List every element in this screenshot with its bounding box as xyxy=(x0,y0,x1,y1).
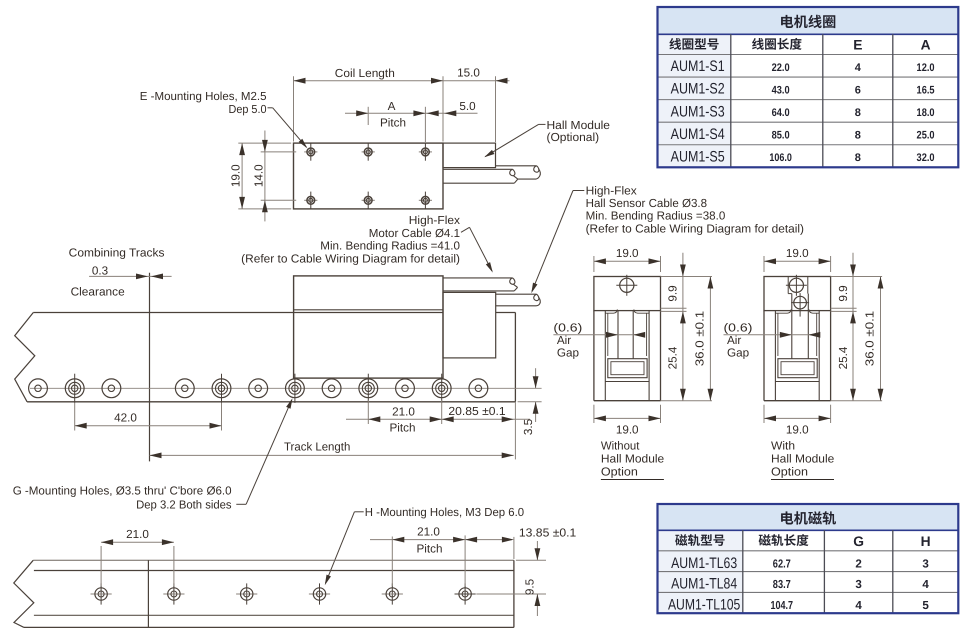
center blade xyxy=(618,311,633,359)
svg-text:H: H xyxy=(921,534,931,549)
label High-Flex Hall Sensor Cable xyxy=(529,184,804,294)
svg-text:5.0: 5.0 xyxy=(459,100,476,113)
svg-text:Pitch: Pitch xyxy=(390,421,416,434)
table data row AUM1-S5 xyxy=(658,145,935,168)
svg-text:25.4: 25.4 xyxy=(667,346,680,369)
dimension 19.0 top xyxy=(764,247,831,272)
H mounting holes (6x) xyxy=(91,583,476,604)
dimension 21.0 (left) xyxy=(101,528,174,586)
dimension 19.0 bottom xyxy=(594,405,661,437)
magnet track body (top view) xyxy=(14,560,514,627)
svg-text:83.7: 83.7 xyxy=(773,578,791,591)
motor cable (side view) xyxy=(443,278,518,291)
svg-text:21.0: 21.0 xyxy=(126,528,149,541)
hall module (side view) xyxy=(443,292,496,358)
svg-text:13.85 ±0.1: 13.85 ±0.1 xyxy=(519,526,576,539)
hall sensor cable (top view) xyxy=(496,166,541,179)
svg-text:8: 8 xyxy=(855,152,861,164)
svg-text:G: G xyxy=(853,534,864,549)
svg-text:3: 3 xyxy=(922,557,929,570)
dimensions 9.9 / 25.4 / 36.0 xyxy=(831,253,884,401)
dimension 13.85 +/-0.1 xyxy=(465,526,576,559)
svg-text:6: 6 xyxy=(855,85,861,97)
svg-text:36.0 ±0.1: 36.0 ±0.1 xyxy=(693,311,706,366)
svg-text:(Optional): (Optional) xyxy=(547,131,600,144)
svg-text:25.4: 25.4 xyxy=(837,346,850,369)
svg-text:AUM1-S2: AUM1-S2 xyxy=(671,81,725,98)
svg-text:32.0: 32.0 xyxy=(917,152,935,164)
table title row: 电机线圈 xyxy=(658,7,959,34)
svg-text:25.0: 25.0 xyxy=(917,130,935,142)
label Hall Module (Optional) xyxy=(483,119,610,160)
svg-text:A: A xyxy=(921,38,931,53)
table column header row xyxy=(658,530,931,551)
svg-text:Without: Without xyxy=(601,440,640,453)
svg-text:G -Mounting Holes, Ø3.5 thru': G -Mounting Holes, Ø3.5 thru' C'bore Ø6.… xyxy=(13,485,232,498)
svg-text:19.0: 19.0 xyxy=(230,164,243,187)
svg-text:Combining Tracks: Combining Tracks xyxy=(69,246,165,259)
track joint line (combining tracks) xyxy=(149,273,151,462)
air gap dimension (0.6) xyxy=(553,322,645,360)
svg-text:0.3: 0.3 xyxy=(92,264,108,277)
svg-text:Option: Option xyxy=(601,466,638,479)
svg-text:Hall Sensor Cable Ø3.8: Hall Sensor Cable Ø3.8 xyxy=(586,197,708,210)
svg-text:Min. Bending Radius =38.0: Min. Bending Radius =38.0 xyxy=(586,210,726,223)
svg-text:AUM1-TL84: AUM1-TL84 xyxy=(671,576,737,593)
svg-text:4: 4 xyxy=(855,599,862,612)
Without Hall Module Option label xyxy=(601,440,664,480)
svg-text:AUM1-S1: AUM1-S1 xyxy=(671,58,725,75)
svg-text:9.9: 9.9 xyxy=(667,285,680,301)
svg-text:Clearance: Clearance xyxy=(71,285,125,298)
table data row AUM1-TL105 xyxy=(658,592,930,613)
dimensions 9.9 / 25.4 / 36.0 xyxy=(661,253,714,401)
dimension 21.0 Pitch (right) xyxy=(370,526,512,586)
dimension Coil Length xyxy=(294,67,510,141)
svg-text:A: A xyxy=(388,100,396,113)
svg-text:8: 8 xyxy=(855,107,861,119)
svg-text:Pitch: Pitch xyxy=(380,116,406,129)
svg-text:Hall Module: Hall Module xyxy=(771,453,834,466)
table data row AUM1-S3 xyxy=(658,100,935,123)
svg-text:14.0: 14.0 xyxy=(252,164,265,187)
svg-text:4: 4 xyxy=(922,578,929,591)
label H-Mounting Holes xyxy=(323,506,525,586)
svg-text:16.5: 16.5 xyxy=(917,85,935,97)
svg-text:High-Flex: High-Flex xyxy=(586,184,637,197)
table data row AUM1-S1 xyxy=(658,55,935,78)
with hall module cross-section body xyxy=(764,277,831,401)
dimension 5.0 xyxy=(427,100,476,116)
svg-text:(Refer to Cable Wiring Diagram: (Refer to Cable Wiring Diagram for detai… xyxy=(586,222,805,235)
base strip xyxy=(605,381,649,383)
svg-text:(0.6): (0.6) xyxy=(724,322,753,335)
center blade xyxy=(792,294,809,359)
svg-text:Coil Length: Coil Length xyxy=(335,67,395,80)
coil body (top view) xyxy=(294,143,444,209)
track joint line (bottom view) xyxy=(147,560,149,627)
svg-text:High-Flex: High-Flex xyxy=(409,214,460,227)
coil block (side view) xyxy=(294,276,443,378)
svg-text:3.5: 3.5 xyxy=(522,418,535,435)
dimension 21.0 Pitch (track) xyxy=(346,400,530,434)
svg-text:AUM1-S3: AUM1-S3 xyxy=(671,103,725,120)
label High-Flex Motor Cable xyxy=(241,214,495,274)
table data row AUM1-TL63 xyxy=(658,551,930,572)
svg-text:Dep 5.0: Dep 5.0 xyxy=(229,103,267,116)
dimension 20.85 +/-0.1 xyxy=(442,405,514,422)
svg-text:Min. Bending Radius =41.0: Min. Bending Radius =41.0 xyxy=(320,240,460,253)
base strip xyxy=(775,381,819,383)
dimension A Pitch xyxy=(345,100,478,142)
svg-text:4: 4 xyxy=(855,62,862,74)
svg-text:H -Mounting Holes, M3 Dep 6.0: H -Mounting Holes, M3 Dep 6.0 xyxy=(365,506,525,519)
dimension Track Length xyxy=(150,402,516,460)
svg-text:E -Mounting Holes, M2.5: E -Mounting Holes, M2.5 xyxy=(140,90,267,103)
svg-text:AUM1-TL105: AUM1-TL105 xyxy=(668,596,740,613)
table data row AUM1-S4 xyxy=(658,122,935,145)
svg-text:36.0 ±0.1: 36.0 ±0.1 xyxy=(864,311,877,366)
svg-text:(Refer to Cable Wiring Diagram: (Refer to Cable Wiring Diagram for detai… xyxy=(241,252,460,265)
table grid xyxy=(658,504,959,613)
label Combining Tracks / 0.3 Clearance xyxy=(69,246,172,298)
top mounting hole xyxy=(786,275,807,296)
svg-text:Gap: Gap xyxy=(557,347,580,360)
svg-text:15.0: 15.0 xyxy=(457,67,480,80)
without hall module cross-section body xyxy=(594,277,661,401)
track body (side view) xyxy=(15,313,516,402)
dimension 9.5 xyxy=(476,541,546,616)
dimension 19.0 bottom xyxy=(764,405,831,437)
svg-text:8: 8 xyxy=(855,130,861,142)
svg-text:Motor Cable Ø4.1: Motor Cable Ø4.1 xyxy=(369,227,460,240)
svg-text:Pitch: Pitch xyxy=(417,543,443,556)
dimension 15.0 xyxy=(457,67,507,143)
svg-text:AUM1-TL63: AUM1-TL63 xyxy=(671,555,737,572)
svg-text:21.0: 21.0 xyxy=(392,405,415,418)
svg-text:20.85 ±0.1: 20.85 ±0.1 xyxy=(448,405,505,418)
svg-text:21.0: 21.0 xyxy=(417,526,440,539)
svg-text:(0.6): (0.6) xyxy=(553,322,582,335)
svg-text:Air: Air xyxy=(727,334,741,347)
track holes row: G-mounting holes and magnet positions xyxy=(29,374,488,403)
svg-text:62.7: 62.7 xyxy=(773,557,791,570)
svg-text:19.0: 19.0 xyxy=(786,247,809,260)
dimension 19.0 top xyxy=(594,247,661,272)
svg-text:Dep 3.2 Both sides: Dep 3.2 Both sides xyxy=(136,499,232,512)
label G-Mounting Holes xyxy=(13,397,295,511)
label E-Mounting Holes xyxy=(140,90,309,150)
svg-text:Hall Module: Hall Module xyxy=(547,119,611,132)
svg-text:Option: Option xyxy=(771,466,808,479)
hall cable (side view) xyxy=(496,294,541,306)
svg-text:64.0: 64.0 xyxy=(772,107,790,119)
hall sensor pocket + lower hole xyxy=(788,277,809,317)
svg-text:12.0: 12.0 xyxy=(917,62,935,74)
table column header row xyxy=(658,34,931,54)
svg-text:18.0: 18.0 xyxy=(917,107,935,119)
svg-text:Air: Air xyxy=(557,334,571,347)
svg-text:106.0: 106.0 xyxy=(769,152,792,164)
svg-text:104.7: 104.7 xyxy=(771,599,794,612)
svg-text:9.5: 9.5 xyxy=(524,578,537,595)
blade foot xyxy=(608,359,647,378)
svg-text:3: 3 xyxy=(855,578,862,591)
svg-text:5: 5 xyxy=(922,599,929,612)
svg-text:9.9: 9.9 xyxy=(837,285,850,301)
svg-text:Hall Module: Hall Module xyxy=(601,453,664,466)
hall module box (top view) xyxy=(443,143,496,168)
svg-text:19.0: 19.0 xyxy=(616,247,639,260)
dimension 42.0 xyxy=(75,403,222,431)
blade foot xyxy=(778,359,817,378)
top mounting hole xyxy=(616,275,637,296)
svg-text:43.0: 43.0 xyxy=(772,85,790,97)
table grid xyxy=(658,7,959,167)
svg-text:AUM1-S4: AUM1-S4 xyxy=(671,126,725,143)
dimension 3.5 xyxy=(518,368,542,435)
magnet/hole centerline xyxy=(30,387,542,389)
svg-text:With: With xyxy=(771,440,795,453)
dimension 14.0 left xyxy=(252,131,296,222)
svg-text:AUM1-S5: AUM1-S5 xyxy=(671,148,725,165)
table data row AUM1-TL84 xyxy=(658,572,930,593)
svg-text:E: E xyxy=(853,38,862,53)
dimension 19.0 left xyxy=(230,143,292,209)
svg-text:19.0: 19.0 xyxy=(616,424,639,437)
With Hall Module Option label xyxy=(771,440,834,480)
motor cable (top view) xyxy=(443,169,518,183)
table data row AUM1-S2 xyxy=(658,77,935,100)
svg-text:Gap: Gap xyxy=(727,347,750,360)
table title row: 电机磁轨 xyxy=(658,504,959,530)
air gap dimension (0.6) xyxy=(724,322,821,360)
E mounting holes (6x) xyxy=(304,143,432,209)
svg-text:19.0: 19.0 xyxy=(786,424,809,437)
svg-text:22.0: 22.0 xyxy=(772,62,790,74)
svg-text:2: 2 xyxy=(855,557,861,570)
svg-text:Track Length: Track Length xyxy=(284,440,350,453)
svg-text:85.0: 85.0 xyxy=(772,130,790,142)
svg-text:42.0: 42.0 xyxy=(114,412,137,425)
